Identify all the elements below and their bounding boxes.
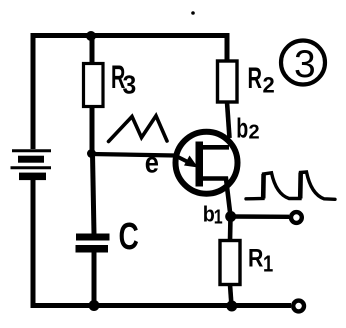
svg-text:R: R (248, 244, 264, 272)
svg-text:b: b (236, 113, 248, 144)
svg-text:1: 1 (214, 206, 223, 228)
svg-text:1: 1 (263, 252, 273, 277)
svg-text:2: 2 (249, 122, 260, 144)
svg-text:3: 3 (294, 43, 316, 86)
svg-text:e: e (145, 145, 159, 178)
svg-text:C: C (119, 216, 139, 258)
svg-text:2: 2 (263, 73, 275, 98)
svg-text:3: 3 (123, 71, 137, 100)
svg-text:R: R (248, 62, 263, 95)
